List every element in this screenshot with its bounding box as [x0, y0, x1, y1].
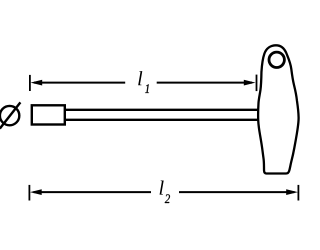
dimension l2 right arrow: [286, 189, 298, 195]
dimension l2 left arrow: [30, 189, 42, 195]
diameter symbol slash: [0, 102, 20, 128]
dimension l2 left tick: [28, 185, 30, 201]
dimension l2 right tick: [297, 185, 299, 201]
dimension l1 label: [138, 71, 142, 85]
dimension l1 right line segment: [157, 82, 252, 84]
dimension l2 label: [160, 181, 164, 195]
shaft bottom line: [65, 119, 258, 121]
handle hole: [269, 52, 284, 67]
socket head rectangle: [32, 105, 65, 124]
dimension l1 left tick: [29, 75, 31, 91]
dimension l1 right arrow: [244, 80, 256, 86]
dimension l2 left line segment: [34, 191, 152, 193]
handle outline: [258, 45, 298, 173]
dimension l2 right line segment: [179, 191, 295, 193]
dimension l1 right tick: [256, 75, 258, 92]
dimension l1 left arrow: [31, 80, 43, 86]
diameter symbol circle: [0, 106, 19, 125]
shaft top line: [65, 109, 258, 111]
dimension l1 left line segment: [34, 82, 125, 84]
